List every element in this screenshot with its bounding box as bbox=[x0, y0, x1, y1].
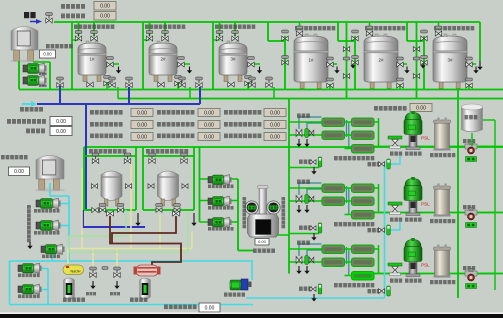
svg-text:0.00: 0.00 bbox=[204, 122, 214, 128]
svg-text:0.00: 0.00 bbox=[270, 134, 280, 140]
svg-text:3#: 3# bbox=[230, 57, 236, 62]
svg-text:2#: 2# bbox=[160, 57, 166, 62]
svg-text:NaOH: NaOH bbox=[71, 270, 81, 274]
svg-text:0.00: 0.00 bbox=[43, 52, 52, 57]
svg-text:0.00: 0.00 bbox=[100, 14, 110, 20]
svg-text:0.00: 0.00 bbox=[14, 169, 24, 175]
svg-text:0.00: 0.00 bbox=[205, 305, 215, 311]
svg-text:0.00: 0.00 bbox=[137, 122, 147, 128]
svg-text:1#: 1# bbox=[89, 57, 95, 62]
svg-text:0.00: 0.00 bbox=[56, 129, 66, 135]
svg-text:PSL: PSL bbox=[421, 136, 430, 141]
svg-text:0.00: 0.00 bbox=[258, 239, 267, 244]
svg-text:PSL: PSL bbox=[421, 202, 430, 207]
svg-text:0.00: 0.00 bbox=[100, 4, 110, 10]
svg-text:0.00: 0.00 bbox=[137, 134, 147, 140]
svg-text:0.00: 0.00 bbox=[56, 119, 66, 125]
svg-text:0.00: 0.00 bbox=[270, 110, 280, 116]
svg-text:0.00: 0.00 bbox=[204, 110, 214, 116]
svg-text:0.00: 0.00 bbox=[204, 134, 214, 140]
svg-text:PSL: PSL bbox=[421, 263, 430, 268]
svg-text:1#: 1# bbox=[308, 57, 314, 62]
svg-text:2#: 2# bbox=[378, 57, 384, 62]
svg-text:0.00: 0.00 bbox=[137, 110, 147, 116]
svg-text:3#: 3# bbox=[447, 57, 453, 62]
svg-text:0.00: 0.00 bbox=[416, 105, 426, 111]
svg-text:0.00: 0.00 bbox=[270, 122, 280, 128]
